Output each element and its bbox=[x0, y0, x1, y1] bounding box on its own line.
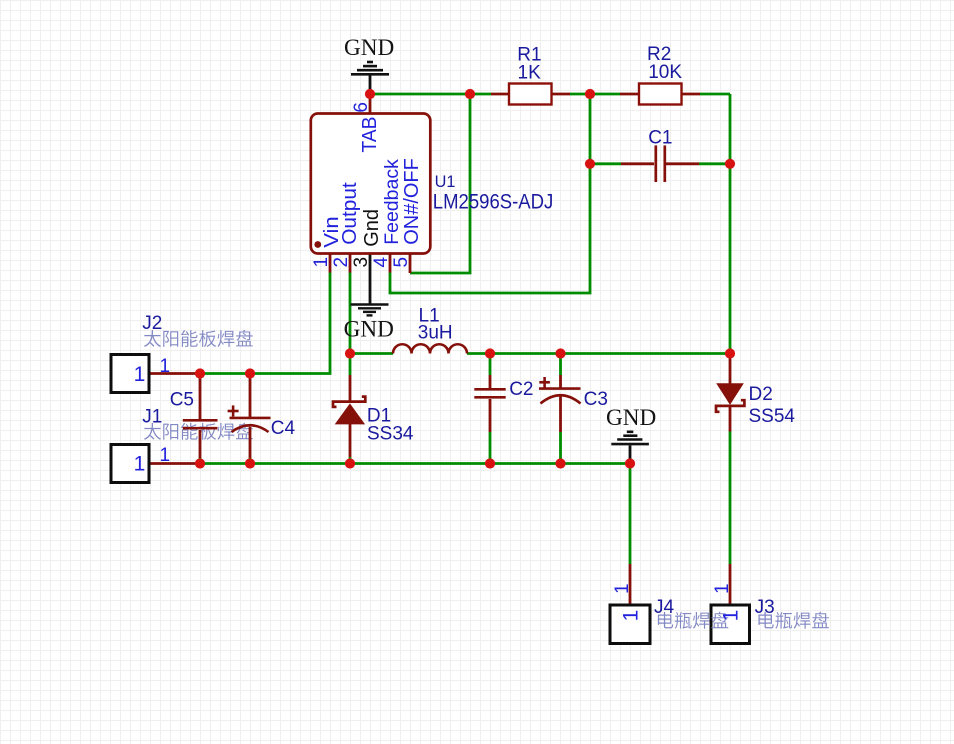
svg-text:GND: GND bbox=[344, 35, 394, 61]
svg-text:GND: GND bbox=[606, 405, 656, 431]
svg-text:U1: U1 bbox=[435, 173, 456, 191]
svg-text:C5: C5 bbox=[170, 390, 194, 411]
svg-text:4: 4 bbox=[371, 257, 392, 268]
svg-text:SS54: SS54 bbox=[749, 406, 796, 427]
svg-text:3uH: 3uH bbox=[418, 323, 453, 344]
svg-text:TAB: TAB bbox=[359, 117, 381, 153]
svg-text:5: 5 bbox=[391, 257, 412, 268]
svg-text:1K: 1K bbox=[518, 62, 542, 83]
svg-text:Gnd: Gnd bbox=[361, 209, 383, 247]
svg-text:ON#/OFF: ON#/OFF bbox=[401, 158, 423, 245]
svg-text:J4: J4 bbox=[654, 597, 675, 618]
svg-text:GND: GND bbox=[344, 316, 394, 342]
svg-text:1: 1 bbox=[720, 610, 743, 622]
svg-text:1: 1 bbox=[160, 445, 171, 466]
svg-text:1: 1 bbox=[311, 257, 332, 268]
svg-text:2: 2 bbox=[331, 257, 352, 268]
svg-text:C3: C3 bbox=[584, 389, 608, 410]
svg-text:SS34: SS34 bbox=[367, 423, 414, 444]
svg-text:C2: C2 bbox=[509, 379, 533, 400]
svg-text:10K: 10K bbox=[648, 62, 682, 83]
svg-text:3: 3 bbox=[351, 257, 372, 268]
svg-text:1: 1 bbox=[620, 610, 643, 622]
svg-text:Output: Output bbox=[339, 182, 361, 245]
svg-text:D2: D2 bbox=[749, 384, 773, 405]
svg-text:1: 1 bbox=[712, 583, 733, 594]
svg-text:J1: J1 bbox=[142, 407, 162, 428]
svg-text:J2: J2 bbox=[142, 313, 162, 334]
svg-text:C4: C4 bbox=[271, 418, 296, 439]
svg-text:1: 1 bbox=[160, 356, 171, 377]
svg-text:1: 1 bbox=[134, 363, 146, 386]
svg-text:1: 1 bbox=[134, 452, 146, 475]
svg-text:LM2596S-ADJ: LM2596S-ADJ bbox=[433, 189, 554, 213]
svg-text:1: 1 bbox=[612, 583, 633, 594]
svg-text:C1: C1 bbox=[648, 128, 672, 149]
svg-text:6: 6 bbox=[351, 102, 372, 113]
svg-text:Feedback: Feedback bbox=[381, 159, 403, 245]
svg-text:J3: J3 bbox=[755, 597, 775, 618]
